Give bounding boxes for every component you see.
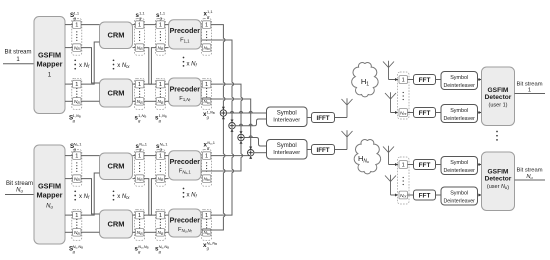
wire B2.1 to C1.NB user 1	[144, 48, 156, 85]
wire CRM2 out1 user 1	[133, 83, 136, 85]
rx antenna 2 user 1	[385, 92, 396, 112]
dots between precoders user N	[183, 188, 185, 198]
wire B2.NB to C2.NB user N	[144, 231, 156, 233]
svg-text:Deinterleaver: Deinterleaver	[443, 116, 475, 122]
wire C1.1 to precoder1 user N	[165, 155, 169, 157]
node rx antenna column user 1	[398, 72, 410, 119]
svg-text:x Nf: x Nf	[79, 194, 90, 200]
label s_g after CRM bottom	[135, 244, 149, 254]
wire bit stream output Nu	[515, 179, 546, 181]
Precoder FN,1	[169, 151, 201, 180]
svg-text:IFFT: IFFT	[316, 115, 329, 122]
node x column user N group1	[202, 150, 212, 187]
wire interleaver1 to IFFT1	[307, 117, 312, 119]
node bit stream input user N	[6, 181, 33, 194]
wire x1,Nf out2 down to adder A4	[202, 99, 251, 150]
wire mapper u1 out2	[65, 47, 73, 49]
label s_g before precoder top	[156, 141, 168, 151]
wire rx ant2 user Nu to column	[391, 194, 399, 196]
svg-text:F1,1: F1,1	[180, 38, 190, 44]
node s column before precoder user 1 group1	[155, 19, 165, 56]
svg-text:1: 1	[75, 23, 78, 29]
svg-text:Deinterleaver: Deinterleaver	[443, 198, 475, 204]
svg-text:Symbol: Symbol	[277, 143, 297, 149]
wire CRM2 out2 user N	[133, 231, 136, 233]
wire A2.1 to CRM1 user 1	[81, 42, 100, 84]
wire xNu,Nf out1 up to adder A2	[211, 129, 232, 215]
wire A1.NB to CRM2 user 1	[81, 48, 100, 83]
svg-text:1: 1	[205, 82, 208, 88]
label S_g^1,Nf	[69, 113, 81, 123]
svg-text:NB: NB	[74, 99, 81, 105]
svg-text:Ntx: Ntx	[203, 176, 210, 182]
svg-text:Mapper: Mapper	[37, 60, 63, 69]
svg-text:NB: NB	[137, 230, 144, 236]
GSFIM Detector user Nu	[482, 152, 515, 211]
label x_g bottom	[203, 240, 217, 250]
FFT a user Nu	[414, 160, 436, 170]
dots between CRMs user N	[113, 190, 115, 200]
label s_g before precoder bottom	[155, 244, 169, 254]
wire A1.1 to CRM1 user 1	[81, 24, 100, 26]
wire CRM1 out1 user 1	[133, 24, 136, 26]
wire C2.NB to precoder2 user 1	[165, 100, 169, 102]
wire rx col 1 to FFT user Nu	[408, 164, 414, 166]
wire deint b to detector user 1	[478, 112, 482, 114]
svg-text:Mapper: Mapper	[37, 191, 63, 200]
FFT b user Nu	[414, 190, 436, 200]
adder A2	[229, 123, 235, 129]
symbol interleaver 2	[267, 140, 308, 160]
svg-text:1: 1	[205, 154, 208, 160]
wire A2.NB to CRM2 user N	[81, 231, 100, 233]
wire C1.NB to precoder1 user N	[165, 178, 169, 180]
node S column user 1 group Nf	[72, 78, 82, 109]
svg-text:NB: NB	[74, 45, 81, 51]
svg-text:Nu: Nu	[16, 188, 23, 194]
svg-text:Precoder: Precoder	[170, 87, 201, 94]
svg-text:NB: NB	[74, 176, 81, 182]
svg-text:CRM: CRM	[107, 89, 124, 98]
CRM upper user N	[100, 153, 133, 180]
svg-text:Symbol: Symbol	[277, 111, 297, 117]
wire C1.NB to precoder1 user 1	[165, 47, 169, 49]
wire deint a to detector user Nu	[478, 164, 482, 166]
svg-text:Symbol: Symbol	[450, 108, 468, 114]
svg-text:CRM: CRM	[107, 31, 124, 40]
wire rx col N to FFT user Nu	[408, 194, 414, 196]
svg-text:1: 1	[205, 213, 208, 219]
wire FFT a to deinterleaver user 1	[436, 79, 442, 81]
Precoder FN,Nf	[169, 209, 201, 237]
wire mapper uN out2	[65, 178, 73, 180]
svg-text:(user 1): (user 1)	[489, 103, 508, 109]
svg-text:1: 1	[75, 154, 78, 160]
svg-text:NB: NB	[137, 176, 144, 182]
svg-text:Nrx: Nrx	[400, 193, 407, 199]
wire A1.NB to CRM2 user N	[81, 179, 100, 214]
wire mapper uN out1	[65, 155, 73, 157]
rx antenna 2 user Nu	[385, 175, 396, 195]
wire FFT b to deinterleaver user Nu	[436, 194, 442, 196]
svg-text:Precoder: Precoder	[170, 159, 201, 166]
label S_g^N,1	[70, 141, 82, 151]
channel cloud H1	[352, 63, 379, 97]
svg-text:Symbol: Symbol	[450, 160, 468, 166]
svg-text:GSFIM: GSFIM	[488, 87, 509, 94]
svg-text:x Nf: x Nf	[187, 62, 198, 68]
rx antenna 1 user Nu	[383, 146, 394, 165]
symbol deinterleaver b user 1	[441, 105, 478, 123]
svg-text:NB: NB	[157, 99, 164, 105]
svg-text:IFFT: IFFT	[316, 147, 329, 154]
wire CRM1 out1 user N	[133, 155, 136, 157]
wire mapper u1 out4	[65, 100, 73, 102]
node bit stream output user Nu	[516, 168, 542, 181]
node bit stream output user 1	[516, 82, 542, 94]
label s_g after CRM top	[136, 10, 146, 20]
svg-text:NB: NB	[74, 230, 81, 236]
symbol deinterleaver b user Nu	[441, 187, 478, 205]
wire xNu,1 out1 up to adder A4	[211, 155, 251, 157]
wire mapper u1 out3	[65, 83, 73, 85]
wire C2.1 to precoder2 user N	[165, 214, 169, 216]
svg-text:GSFIM: GSFIM	[38, 182, 61, 191]
svg-text:1: 1	[138, 82, 141, 88]
dots between precoders user 1	[183, 57, 185, 67]
node S column user N group Nf	[72, 209, 82, 240]
wire B1.NB to C2.1 user 1	[144, 48, 156, 85]
svg-text:Interleaver: Interleaver	[273, 150, 300, 156]
wire x1,1 out2 down to adder A2	[202, 40, 232, 123]
svg-text:FFT: FFT	[419, 77, 431, 84]
wire A1.1 to CRM1 user N	[81, 155, 100, 157]
wire B2.NB to C2.NB user 1	[144, 100, 156, 102]
label S_g^N,Nf	[69, 244, 83, 254]
svg-text:NB: NB	[137, 99, 144, 105]
wire interleaver2 to IFFT2	[307, 149, 312, 151]
GSFIM Detector user 1	[482, 67, 515, 126]
svg-text:1: 1	[528, 88, 531, 94]
wire C2.NB to precoder2 user N	[165, 231, 169, 233]
svg-text:Bit stream: Bit stream	[4, 50, 31, 56]
svg-text:1: 1	[75, 82, 78, 88]
svg-text:Deinterleaver: Deinterleaver	[443, 83, 475, 89]
FFT b user 1	[414, 108, 436, 118]
svg-text:GSFIM: GSFIM	[38, 51, 61, 60]
wire rx ant1 user 1 to column	[389, 79, 399, 81]
node s column after CRM user 1 group1	[135, 19, 145, 56]
node s column before precoder user N groupNf	[155, 209, 165, 240]
svg-text:Detector: Detector	[485, 94, 512, 101]
GSFIM Mapper Nu	[34, 145, 65, 244]
svg-text:1: 1	[138, 213, 141, 219]
wire B1.1 to C1.1 user N	[144, 155, 156, 157]
label s_g after CRM bottom	[135, 113, 147, 123]
Precoder F1,1	[169, 20, 201, 49]
svg-text:1: 1	[48, 72, 52, 79]
node rx antenna column user Nu	[398, 157, 410, 204]
label s_g after CRM top	[136, 141, 148, 151]
symbol deinterleaver a user Nu	[441, 157, 478, 175]
wire rx ant2 user 1 to column	[391, 112, 399, 114]
svg-text:1: 1	[159, 154, 162, 160]
svg-text:1: 1	[138, 154, 141, 160]
label S_g^1,1	[70, 10, 80, 20]
wire xNu,1 out2 up to adder A3	[202, 141, 241, 171]
label s_g before precoder bottom	[155, 113, 167, 123]
wire deint a to detector user 1	[478, 79, 482, 81]
wire mapper u1 out1	[65, 24, 73, 26]
node s column before precoder user 1 groupNf	[155, 78, 165, 109]
node S column user 1 group 1	[72, 19, 82, 56]
svg-text:FFT: FFT	[419, 193, 431, 200]
dots between detectors	[496, 131, 498, 141]
wire xNu,Nf out2 up to adder A1	[202, 116, 224, 230]
wire adder A1 to symbol interleaver 1	[227, 112, 267, 114]
svg-text:FFT: FFT	[419, 110, 431, 117]
svg-text:(user Nu): (user Nu)	[487, 184, 509, 191]
svg-text:F1,Nf: F1,Nf	[179, 96, 190, 103]
svg-text:Ntx: Ntx	[203, 230, 210, 236]
wire IFFT2 to tx antenna 2	[335, 149, 348, 151]
wire adder A3 to symbol interleaver 2	[244, 138, 266, 147]
wire x1,1 out1 down to adder A1	[211, 25, 224, 110]
node s column before precoder user N group1	[155, 150, 165, 187]
wire mapper uN out4	[65, 231, 73, 233]
symbol deinterleaver a user 1	[441, 72, 478, 90]
svg-text:Nu: Nu	[46, 204, 53, 210]
tx antenna 1	[342, 98, 353, 117]
wire adder A4 to symbol interleaver 2	[254, 152, 267, 154]
channel cloud H_Nu	[354, 140, 381, 174]
svg-text:x Nf: x Nf	[187, 193, 198, 199]
svg-text:Ntx: Ntx	[203, 99, 210, 105]
svg-text:NB: NB	[137, 45, 144, 51]
svg-text:Symbol: Symbol	[450, 191, 468, 197]
wire rx ant1 user Nu to column	[389, 164, 399, 166]
svg-text:Deinterleaver: Deinterleaver	[443, 168, 475, 174]
adder A1	[220, 110, 226, 116]
wire B1.1 to C1.1 user 1	[144, 24, 156, 26]
node x column user 1 group1	[202, 19, 212, 56]
svg-text:Precoder: Precoder	[170, 218, 201, 225]
wire rx col N to FFT user 1	[408, 112, 414, 114]
svg-text:1: 1	[402, 78, 405, 84]
wire FFT b to deinterleaver user 1	[436, 112, 442, 114]
node S column user N group 1	[72, 150, 82, 187]
wire CRM1 out2 user N	[133, 178, 136, 180]
svg-text:Bit stream: Bit stream	[516, 168, 542, 174]
node s column after CRM user 1 groupNf	[135, 78, 145, 109]
wire CRM2 out2 user 1	[133, 100, 136, 102]
svg-text:1: 1	[159, 213, 162, 219]
IFFT 2	[312, 145, 335, 155]
svg-text:Interleaver: Interleaver	[273, 118, 300, 124]
FFT a user 1	[414, 75, 436, 85]
svg-text:x Ntx: x Ntx	[117, 194, 130, 200]
svg-text:Ntx: Ntx	[203, 45, 210, 51]
dots between CRMs user 1	[113, 59, 115, 69]
adder A4	[248, 150, 254, 156]
wire mapper uN out3	[65, 214, 73, 216]
CRM upper user 1	[100, 22, 133, 49]
wire A2.1 to CRM1 user N	[81, 173, 100, 215]
CRM lower user N	[100, 210, 133, 238]
svg-text:Detector: Detector	[485, 176, 512, 183]
node bit stream input user 1	[4, 50, 31, 64]
dots between S columns user 1	[74, 59, 76, 69]
IFFT 1	[312, 113, 335, 123]
svg-text:Symbol: Symbol	[450, 75, 468, 81]
wire bit stream 1 into mapper	[3, 63, 34, 65]
wire bit stream Nu into mapper	[5, 194, 34, 196]
wire A2.NB to CRM2 user 1	[81, 100, 100, 102]
svg-text:CRM: CRM	[107, 162, 124, 171]
svg-text:x Nf: x Nf	[79, 63, 90, 69]
svg-text:1: 1	[205, 23, 208, 29]
svg-text:x Ntx: x Ntx	[117, 63, 130, 69]
tx antenna 2	[342, 130, 353, 149]
wire C2.1 to precoder2 user 1	[165, 83, 169, 85]
wire CRM1 out2 user 1	[133, 47, 136, 49]
wire C1.1 to precoder1 user 1	[165, 24, 169, 26]
wire deint b to detector user Nu	[478, 194, 482, 196]
Precoder F1,Nf	[169, 78, 201, 106]
wire hops at crossings	[222, 38, 225, 41]
label s_g before precoder top	[156, 10, 166, 20]
node s column after CRM user N groupNf	[135, 209, 145, 240]
svg-text:1: 1	[159, 82, 162, 88]
wire CRM2 out1 user N	[133, 214, 136, 216]
wire FFT a to deinterleaver user Nu	[436, 164, 442, 166]
svg-text:Precoder: Precoder	[170, 28, 201, 35]
node x column user 1 groupNf	[202, 78, 212, 109]
wire B2.1 to C1.NB user N	[144, 179, 156, 216]
label x_g top	[204, 140, 216, 150]
svg-text:CRM: CRM	[107, 220, 124, 229]
label x_g bottom	[203, 109, 215, 119]
svg-text:FNu,1: FNu,1	[179, 169, 192, 176]
svg-text:Bit stream: Bit stream	[6, 181, 33, 187]
svg-text:Nrx: Nrx	[400, 110, 407, 116]
node s column after CRM user N group1	[135, 150, 145, 187]
wire rx col 1 to FFT user 1	[408, 79, 414, 81]
svg-text:1: 1	[159, 23, 162, 29]
node x column user N groupNf	[202, 209, 212, 240]
svg-text:1: 1	[138, 23, 141, 29]
dots between S columns user N	[74, 190, 76, 200]
svg-text:Nu: Nu	[526, 174, 533, 180]
wire IFFT1 to tx antenna 1	[335, 117, 348, 119]
svg-text:NB: NB	[157, 45, 164, 51]
svg-text:1: 1	[75, 213, 78, 219]
adder A3	[238, 134, 244, 140]
wire x1,Nf out1 down to adder A3	[211, 84, 241, 134]
svg-text:1: 1	[402, 163, 405, 169]
wire B1.NB to C2.1 user N	[144, 179, 156, 216]
GSFIM Mapper 1	[34, 17, 65, 114]
symbol interleaver 1	[267, 107, 308, 127]
svg-text:GSFIM: GSFIM	[488, 169, 509, 176]
svg-text:NB: NB	[157, 230, 164, 236]
label x_g top	[204, 9, 214, 19]
rx antenna 1 user 1	[383, 61, 394, 80]
wire bit stream output 1	[515, 93, 546, 95]
CRM lower user 1	[100, 79, 133, 107]
svg-text:NB: NB	[157, 176, 164, 182]
svg-text:FFT: FFT	[419, 162, 431, 169]
wire adder A2 to symbol interleaver 1	[235, 119, 266, 126]
